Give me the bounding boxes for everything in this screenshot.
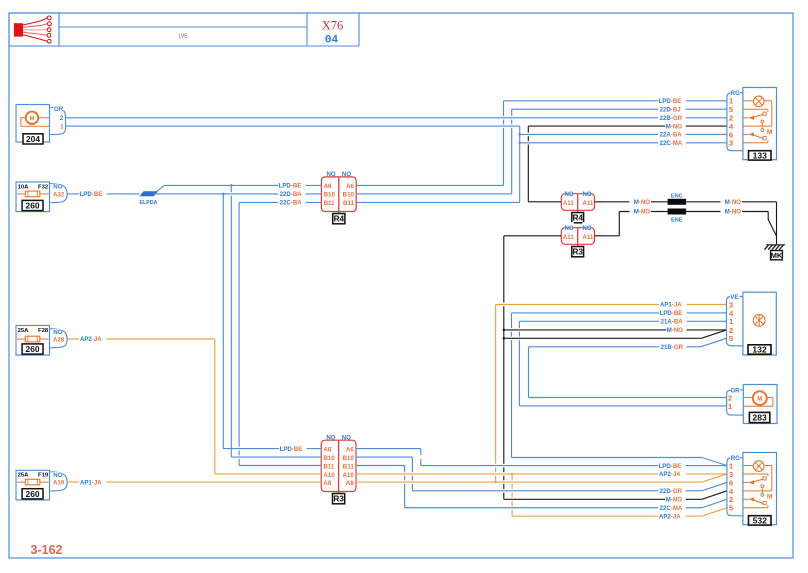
svg-text:A6: A6 <box>324 183 332 190</box>
svg-text:F19: F19 <box>38 473 49 479</box>
svg-text:M: M <box>767 129 773 136</box>
svg-text:2: 2 <box>60 115 64 122</box>
svg-text:-BE: -BE <box>671 463 682 470</box>
svg-text:-JA: -JA <box>672 302 682 309</box>
svg-text:21A: 21A <box>661 319 673 326</box>
svg-text:B10: B10 <box>343 192 355 199</box>
svg-text:A10: A10 <box>323 472 335 479</box>
svg-text:133: 133 <box>753 150 768 160</box>
svg-text:NO: NO <box>53 472 62 479</box>
svg-text:NO: NO <box>565 191 574 198</box>
svg-text:-JA: -JA <box>92 479 102 486</box>
svg-text:R4: R4 <box>572 214 583 223</box>
svg-text:ELPDA: ELPDA <box>140 200 158 206</box>
svg-text:3: 3 <box>729 139 733 148</box>
svg-text:-GR: -GR <box>671 488 683 495</box>
svg-text:MK: MK <box>771 251 783 260</box>
svg-text:A11: A11 <box>563 200 574 207</box>
svg-text:04: 04 <box>325 35 339 47</box>
svg-text:LPD: LPD <box>280 446 293 453</box>
svg-text:A8: A8 <box>323 480 331 487</box>
svg-text:NO: NO <box>583 191 592 198</box>
svg-text:A6: A6 <box>346 446 354 453</box>
svg-text:25A: 25A <box>18 328 30 334</box>
svg-text:NO: NO <box>326 435 335 442</box>
svg-text:NO: NO <box>53 329 62 336</box>
svg-text:A8: A8 <box>346 480 354 487</box>
svg-text:M: M <box>30 116 35 122</box>
svg-text:B11: B11 <box>343 463 355 470</box>
svg-text:-BA: -BA <box>291 200 302 207</box>
svg-text:A6: A6 <box>346 183 354 190</box>
svg-text:-BE: -BE <box>671 98 682 105</box>
svg-text:22D: 22D <box>280 191 292 198</box>
svg-text:22D: 22D <box>660 106 672 113</box>
svg-text:22A: 22A <box>660 132 672 139</box>
svg-text:LPD: LPD <box>659 463 672 470</box>
svg-text:-MA: -MA <box>671 505 683 512</box>
svg-text:A10: A10 <box>342 472 354 479</box>
svg-text:-BA: -BA <box>671 132 682 139</box>
svg-text:B11: B11 <box>323 463 335 470</box>
svg-text:-JA: -JA <box>671 471 681 478</box>
svg-text:-NO: -NO <box>671 123 682 130</box>
svg-text:260: 260 <box>26 201 40 211</box>
svg-text:-BJ: -BJ <box>671 106 681 113</box>
svg-text:-GR: -GR <box>671 115 683 122</box>
svg-text:AP2: AP2 <box>659 513 671 520</box>
svg-text:A11: A11 <box>583 234 594 241</box>
svg-text:-BE: -BE <box>292 446 303 453</box>
svg-text:5: 5 <box>729 334 734 343</box>
svg-text:204: 204 <box>26 134 40 144</box>
svg-text:25A: 25A <box>18 473 30 479</box>
svg-text:M: M <box>757 397 762 403</box>
svg-text:-MA: -MA <box>671 140 683 147</box>
svg-text:NO: NO <box>342 435 351 442</box>
svg-text:260: 260 <box>26 489 40 499</box>
svg-text:A28: A28 <box>53 337 65 344</box>
svg-text:NO: NO <box>342 171 351 178</box>
svg-text:ENE: ENE <box>671 218 683 224</box>
svg-text:22C: 22C <box>280 200 292 207</box>
svg-text:3-162: 3-162 <box>31 543 63 557</box>
svg-text:B11: B11 <box>343 200 355 207</box>
svg-text:-BE: -BE <box>672 310 683 317</box>
svg-text:X76: X76 <box>322 18 344 32</box>
svg-text:AP2: AP2 <box>659 471 671 478</box>
svg-text:ENC: ENC <box>671 194 683 200</box>
svg-text:A11: A11 <box>583 200 594 207</box>
svg-text:1: 1 <box>728 402 733 411</box>
svg-text:B10: B10 <box>323 455 335 462</box>
svg-text:AP1: AP1 <box>80 479 92 486</box>
svg-text:R4: R4 <box>334 215 345 224</box>
svg-text:-JA: -JA <box>92 336 102 343</box>
svg-text:LPD: LPD <box>80 191 93 198</box>
svg-text:22B: 22B <box>660 115 672 122</box>
svg-text:260: 260 <box>26 344 40 354</box>
svg-text:132: 132 <box>752 345 767 355</box>
svg-text:-BE: -BE <box>291 183 302 190</box>
svg-text:-NO: -NO <box>639 209 650 216</box>
svg-text:LPD: LPD <box>659 98 672 105</box>
svg-text:AP2: AP2 <box>80 336 92 343</box>
svg-text:5: 5 <box>729 504 734 513</box>
svg-text:M: M <box>767 494 773 501</box>
svg-text:A32: A32 <box>53 192 65 199</box>
svg-text:-NO: -NO <box>730 209 741 216</box>
svg-text:22C: 22C <box>660 505 672 512</box>
svg-text:B11: B11 <box>324 200 336 207</box>
svg-text:-GR: -GR <box>672 344 684 351</box>
svg-text:NO: NO <box>583 225 592 232</box>
svg-text:LPD: LPD <box>660 310 673 317</box>
svg-text:-BA: -BA <box>291 191 302 198</box>
svg-text:-NO: -NO <box>672 327 683 334</box>
svg-text:A11: A11 <box>563 234 574 241</box>
svg-text:A6: A6 <box>323 446 331 453</box>
svg-text:B10: B10 <box>342 455 354 462</box>
svg-text:22D: 22D <box>660 488 672 495</box>
svg-text:-NO: -NO <box>730 199 741 206</box>
svg-text:OR: OR <box>54 106 64 113</box>
svg-text:-BA: -BA <box>672 319 683 326</box>
svg-text:F28: F28 <box>38 328 49 334</box>
svg-text:22C: 22C <box>660 140 672 147</box>
svg-text:-NO: -NO <box>639 199 650 206</box>
svg-text:-NO: -NO <box>671 497 682 504</box>
svg-text:AP1: AP1 <box>660 302 672 309</box>
svg-text:F32: F32 <box>38 184 49 190</box>
svg-text:B10: B10 <box>324 192 336 199</box>
svg-text:532: 532 <box>753 515 768 525</box>
svg-text:NO: NO <box>327 171 336 178</box>
svg-text:NO: NO <box>565 225 574 232</box>
svg-text:-JA: -JA <box>671 513 681 520</box>
svg-text:R3: R3 <box>572 248 583 257</box>
svg-text:A19: A19 <box>53 480 65 487</box>
svg-text:10A: 10A <box>18 184 30 190</box>
svg-text:NO: NO <box>53 184 62 191</box>
svg-text:283: 283 <box>752 413 767 423</box>
svg-text:LPD: LPD <box>279 183 292 190</box>
svg-text:R3: R3 <box>333 495 344 504</box>
svg-text:LVE: LVE <box>178 33 188 39</box>
svg-text:-BE: -BE <box>92 191 103 198</box>
svg-text:21B: 21B <box>661 344 673 351</box>
